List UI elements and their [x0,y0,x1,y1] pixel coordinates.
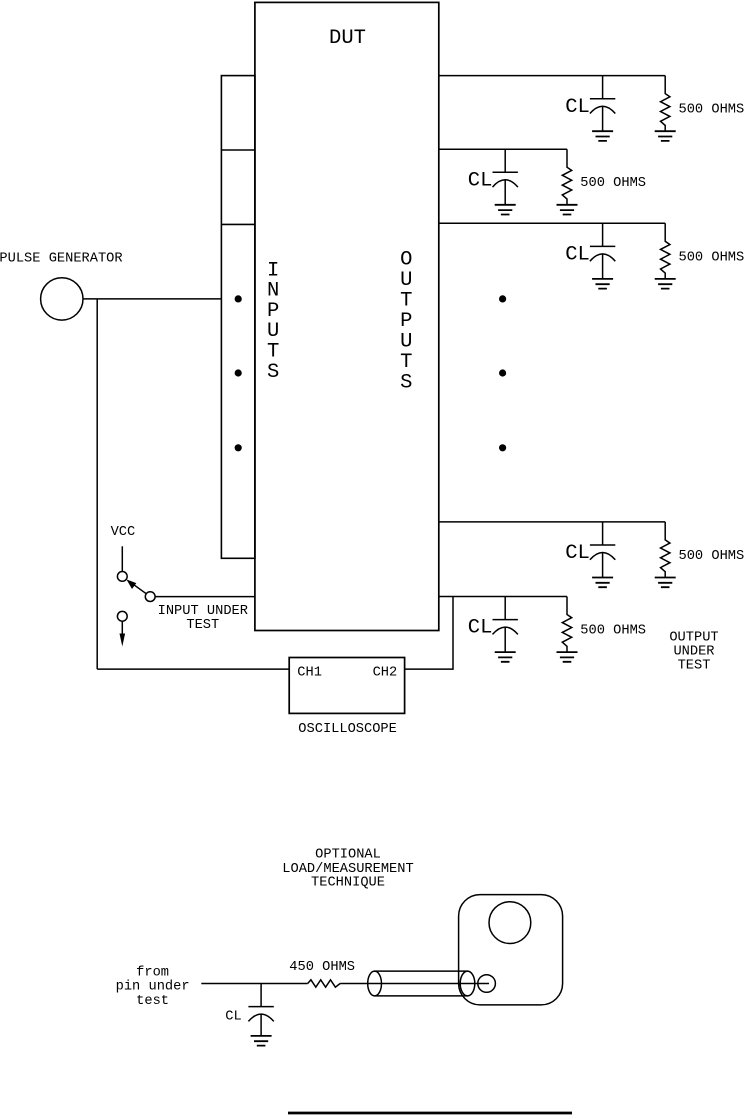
svg-text:CH1: CH1 [297,666,322,681]
DUT box (device under test) [255,2,439,630]
svg-text:450 OHMS: 450 OHMS [289,960,355,975]
resistor 450 ohms [308,980,340,987]
capacitor CL row 3 [590,223,615,279]
BNC input connector circle [478,975,496,993]
svg-text:OPTIONAL: OPTIONAL [315,848,381,863]
resistor 500 ohms row 2 [562,149,571,205]
capacitor CL (optional load) [248,984,273,1036]
wire CH2 to output under test [405,597,453,670]
wire from pin under test [201,983,307,985]
oscilloscope front panel rounded box [459,895,563,1005]
svg-text:500 OHMS: 500 OHMS [580,176,646,191]
coax cable left end ellipse [368,971,382,996]
wire pulse generator to input strip [83,298,221,300]
coax cable body [375,971,468,996]
open contact arrow down [121,621,123,637]
svg-text:TEST: TEST [186,618,219,633]
capacitor CL row 2 [493,149,518,205]
VCC lead wire [121,546,123,571]
svg-text:PULSE GENERATOR: PULSE GENERATOR [0,252,123,267]
input strip divider 1 [221,149,255,151]
input ellipsis dot 2 [235,369,242,376]
input strip divider 2 [221,223,255,225]
svg-text:S: S [267,361,279,384]
svg-text:INPUT UNDER: INPUT UNDER [158,604,248,619]
svg-text:CL: CL [225,1010,241,1025]
coax cable right end ellipse [460,971,475,996]
output ellipsis dot 2 [499,369,506,376]
capacitor CL row 1 [590,76,615,132]
wire switch to DUT input [155,596,255,598]
switch pole circle [145,592,155,602]
svg-text:500 OHMS: 500 OHMS [679,250,744,265]
svg-text:CL: CL [468,617,493,640]
oscilloscope screen circle [489,902,531,944]
svg-text:test: test [136,994,169,1009]
svg-text:500 OHMS: 500 OHMS [580,624,646,639]
resistor 500 ohms row 4 [661,522,670,578]
svg-text:from: from [136,965,169,980]
svg-text:DUT: DUT [329,27,366,50]
output ellipsis dot 3 [499,444,506,451]
svg-text:S: S [400,371,412,394]
wire to oscilloscope CH1 [97,668,289,670]
capacitor CL row 5 [493,597,518,653]
switch contact circle VCC [117,572,127,582]
output wire row 5 [439,596,567,598]
svg-text:pin under: pin under [116,980,190,995]
svg-text:OSCILLOSCOPE: OSCILLOSCOPE [298,722,397,737]
svg-text:UNDER: UNDER [673,645,714,660]
capacitor CL row 4 [590,522,615,578]
output wire row 1 [439,75,665,77]
svg-text:TECHNIQUE: TECHNIQUE [311,876,385,891]
switch lever with arrowhead [130,582,146,594]
input ellipsis dot 1 [235,295,242,302]
svg-text:CH2: CH2 [373,666,398,681]
wire resistor to probe [340,983,489,985]
output wire row 2 [439,148,567,150]
svg-text:CL: CL [468,169,493,192]
resistor 500 ohms row 3 [661,223,670,279]
input pin strip box [221,76,255,559]
footer rule line [288,1112,572,1115]
output wire row 4 [439,521,665,523]
resistor 500 ohms row 1 [661,76,670,132]
resistor 500 ohms row 5 [562,597,571,653]
svg-text:CL: CL [565,542,590,565]
oscilloscope box [289,658,404,714]
svg-text:500 OHMS: 500 OHMS [679,549,744,564]
svg-text:TEST: TEST [678,659,711,674]
output ellipsis dot 1 [499,295,506,302]
output wire row 3 [439,222,665,224]
switch open contact circle [117,611,127,621]
svg-text:VCC: VCC [111,525,136,540]
input ellipsis dot 3 [235,444,242,451]
pulse generator circle [41,278,83,320]
svg-text:CL: CL [565,96,590,119]
svg-text:500 OHMS: 500 OHMS [679,103,744,118]
svg-text:CL: CL [565,244,590,267]
svg-text:OUTPUT: OUTPUT [669,630,718,645]
wire junction down to oscilloscope [96,299,98,669]
